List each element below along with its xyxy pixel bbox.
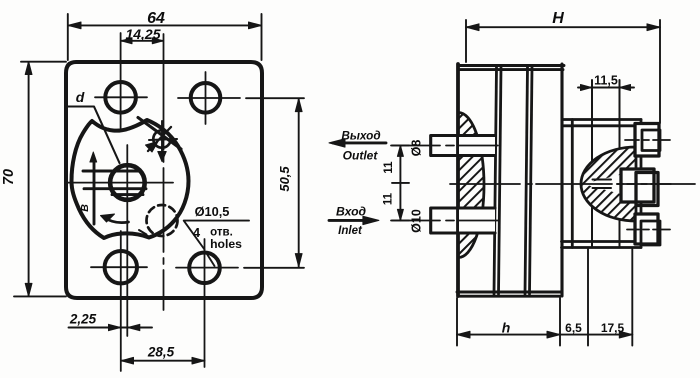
horizontal centerline top hole row [95, 96, 304, 99]
central axis horizontal [66, 182, 173, 184]
svg-text:11,5: 11,5 [594, 74, 618, 88]
housing bottom edge [457, 292, 561, 296]
svg-text:28,5: 28,5 [147, 345, 175, 360]
inlet channel through flange [459, 209, 495, 232]
horizontal centerline bottom hole row [91, 266, 304, 269]
svg-text:50,5: 50,5 [277, 166, 292, 192]
seam line 1 [494, 67, 501, 294]
svg-text:64: 64 [147, 10, 165, 27]
svg-text:Ø10: Ø10 [410, 209, 424, 233]
dim 11,5 [578, 87, 634, 89]
bolt axis bottom [627, 229, 670, 231]
outlet port stub [431, 136, 495, 156]
view B arrow [93, 158, 96, 224]
dim 64 [68, 24, 261, 26]
svg-text:Outlet: Outlet [343, 149, 379, 163]
svg-text:4: 4 [193, 225, 201, 240]
svg-text:Inlet: Inlet [338, 225, 363, 237]
svg-text:6,5: 6,5 [565, 321, 582, 335]
dim 70 [28, 62, 30, 296]
shaft centre notch [583, 175, 621, 195]
housing left edge [456, 64, 460, 296]
inlet port stub [431, 208, 495, 233]
dim 11+11 vertical [399, 145, 401, 220]
central shaft axis vertical [126, 145, 128, 336]
cover top edge [562, 120, 641, 126]
svg-text:holes: holes [210, 237, 242, 251]
svg-text:Ø8: Ø8 [410, 140, 424, 157]
dim 14,25 [121, 40, 163, 42]
svg-text:14,25: 14,25 [125, 26, 160, 42]
outlet axis [391, 145, 498, 147]
dim 50,5 [298, 99, 300, 267]
bolt axis top [625, 139, 670, 141]
svg-text:11: 11 [383, 192, 395, 205]
outlet flow arrow [333, 141, 386, 144]
main axis [450, 183, 695, 185]
central shaft hole d [110, 165, 145, 200]
svg-text:2,25: 2,25 [69, 312, 97, 327]
hole axis vertical top-right [205, 72, 207, 124]
hidden spigot dashed circle [147, 205, 178, 236]
dim 28,5 [121, 360, 205, 362]
svg-text:17,5: 17,5 [601, 321, 625, 335]
hole axis vertical top-left [120, 33, 122, 128]
mounting hole bottom-left [105, 251, 137, 283]
bolt middle head [636, 173, 658, 206]
svg-text:Ø10,5: Ø10,5 [195, 204, 230, 219]
svg-text:Вход: Вход [336, 205, 367, 219]
svg-text:11: 11 [383, 161, 395, 174]
hole axis vertical bottom-right [204, 239, 206, 367]
bolt top [635, 124, 659, 157]
seam line 2 [525, 67, 532, 294]
rotation arrow [104, 218, 129, 223]
view A marks [138, 118, 181, 150]
vertical centerline of plate [163, 34, 165, 310]
plate outline [66, 62, 262, 298]
inlet axis [391, 220, 498, 222]
dim h / 6,5 / 17,5 baseline [457, 334, 632, 336]
bolt middle outer [621, 169, 654, 202]
pump boss outline [72, 120, 189, 238]
label d + leader [67, 107, 120, 164]
leader dia 10,5 [184, 221, 249, 266]
hole axis vertical bottom-left [120, 231, 122, 371]
dim 2,25 [69, 327, 153, 329]
small tick [139, 230, 147, 235]
bolt axis middle [617, 183, 671, 185]
mounting hole bottom-right [189, 252, 220, 283]
svg-text:В: В [79, 204, 91, 212]
svg-text:h: h [502, 320, 511, 336]
cover verticals [571, 120, 574, 248]
svg-text:70: 70 [1, 169, 17, 185]
inlet flow arrow [329, 219, 374, 222]
outlet channel through flange [459, 137, 495, 155]
rear dome hatched [581, 147, 636, 221]
bolt bottom [635, 214, 658, 244]
svg-text:H: H [552, 10, 564, 27]
housing top edge [458, 66, 564, 70]
mounting hole top-right [191, 83, 221, 113]
flange section hatched bulge [459, 113, 485, 258]
mounting hole top-left [105, 82, 136, 113]
cover bottom edge [562, 242, 642, 248]
svg-text:Выход: Выход [341, 129, 380, 143]
housing right edge [560, 64, 563, 296]
dim H [466, 26, 660, 28]
svg-text:d: d [76, 89, 85, 105]
shaft chord lines [83, 171, 146, 195]
